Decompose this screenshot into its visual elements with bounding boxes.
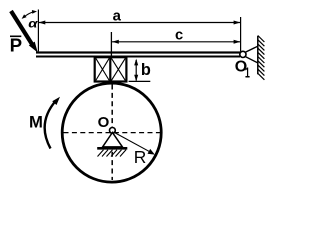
radius R arrow: [114, 132, 155, 155]
dimension line c: [112, 40, 240, 44]
svg-text:O: O: [98, 114, 110, 131]
horizontal centerline (dashed) through O: [64, 132, 161, 134]
disc (pulley) centered at O: [62, 83, 161, 182]
extension line left (bar end): [37, 10, 39, 52]
force P arrow (thick diagonal): [11, 11, 38, 53]
pin at O: [110, 127, 116, 133]
label P with overbar: [10, 35, 22, 56]
dimension line a: [39, 21, 241, 25]
svg-text:c: c: [175, 27, 183, 43]
beam (horizontal bar, double line): [36, 51, 240, 57]
svg-text:α: α: [28, 17, 38, 30]
svg-text:a: a: [113, 8, 122, 24]
wall line: [257, 36, 259, 75]
svg-text:b: b: [141, 61, 151, 79]
svg-text:R: R: [134, 147, 147, 167]
support hatching: [98, 150, 127, 157]
extension line center (block axis): [110, 32, 112, 57]
svg-text:P: P: [10, 35, 22, 56]
svg-text:M: M: [29, 113, 43, 132]
fixed support triangle under O: [103, 133, 123, 147]
slider block with cross hatching: [95, 57, 127, 81]
support base line: [97, 147, 127, 150]
moment M arc with arrowhead: [45, 97, 60, 149]
angle arc alpha (with arrowheads both ends): [22, 10, 37, 19]
dimension b (vertical with arrows): [129, 59, 151, 82]
extension line right (pin axis): [240, 17, 242, 52]
vertical centerline (dashed) through O: [111, 85, 113, 181]
pin circle O1: [240, 51, 246, 57]
label alpha: [28, 17, 38, 30]
pin support bracket (triangle to wall): [244, 46, 258, 63]
wall hatching: [258, 36, 265, 80]
svg-text:1: 1: [245, 64, 250, 81]
